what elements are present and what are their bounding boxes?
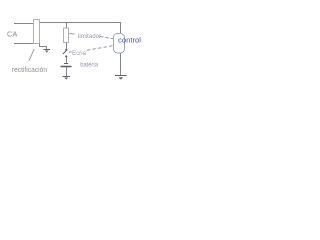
dashed leader: limitador label to control box xyxy=(100,37,113,39)
wire: switch to battery xyxy=(66,57,68,63)
control box U1 xyxy=(114,34,125,54)
wire: AC input top xyxy=(14,23,34,25)
battery B1 long plate xyxy=(61,66,72,68)
transformer T1 body xyxy=(34,20,40,44)
switch S1 bottom contact xyxy=(65,55,67,57)
wire: drop to limiter resistor xyxy=(66,23,68,29)
svg-text:Ecria: Ecria xyxy=(72,51,87,57)
svg-text:limitador: limitador xyxy=(78,33,102,40)
svg-text:batería: batería xyxy=(80,62,98,69)
switch S1 top contact xyxy=(65,49,67,51)
ground: rectifier xyxy=(44,50,51,53)
svg-text:control: control xyxy=(118,36,141,45)
wire: AC input bottom xyxy=(14,43,34,45)
wire: transformer bottom jog to ground xyxy=(40,44,47,50)
svg-text:rectificación: rectificación xyxy=(12,65,47,74)
wire: top rail to control xyxy=(40,23,121,34)
battery B1 short plate xyxy=(64,63,68,65)
ground: battery xyxy=(63,77,71,80)
wire: control box to ground xyxy=(120,53,122,76)
dashed leader: switch to Ecria label xyxy=(69,51,72,53)
resistor R1 limiter body xyxy=(64,28,69,43)
switch S1 blade xyxy=(63,50,67,54)
dashed leader: Ecria label to control box xyxy=(87,46,113,51)
dashed leader: resistor to limitador label xyxy=(69,33,74,36)
ground: control xyxy=(115,76,127,80)
wire: battery to ground xyxy=(66,67,68,76)
svg-text:CA: CA xyxy=(7,30,18,39)
leader line: rectificacion xyxy=(29,49,34,61)
wire: resistor to switch xyxy=(66,43,68,50)
